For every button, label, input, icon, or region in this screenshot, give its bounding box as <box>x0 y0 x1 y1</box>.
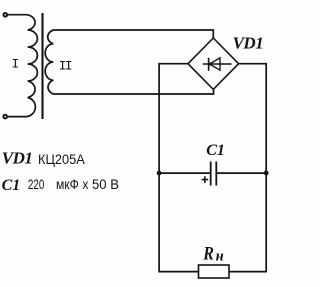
svg-text:II: II <box>59 59 72 74</box>
wire: bridge left output to left vertical, down to bottom, to resistor left <box>159 64 198 272</box>
wire: bridge right output to right vertical, down to bottom, to resistor right <box>229 64 266 272</box>
bridge rectifier VD1 diamond <box>188 38 239 89</box>
svg-text:50 В: 50 В <box>92 176 119 192</box>
svg-text:VD1: VD1 <box>2 149 33 168</box>
wire: capacitor left lead <box>159 172 210 174</box>
diode cathode bar <box>208 58 210 71</box>
capacitor C1 left plate <box>210 162 212 186</box>
transformer core <box>41 13 43 119</box>
svg-text:C1: C1 <box>206 142 225 159</box>
svg-text:220: 220 <box>28 176 45 192</box>
junction dot right <box>264 171 269 176</box>
secondary winding II with top wire to bridge and bottom wire to bridge <box>45 30 213 94</box>
diode apex dot <box>208 63 211 66</box>
junction dot left <box>157 171 162 176</box>
svg-text:I: I <box>12 58 20 72</box>
terminal bottom-left <box>2 114 8 120</box>
primary winding I with lead wires <box>8 15 37 117</box>
plus sign <box>202 176 209 183</box>
svg-text:мкФ: мкФ <box>56 176 79 192</box>
wire: capacitor right lead <box>217 172 266 174</box>
terminal top-left <box>3 12 9 18</box>
svg-text:КЦ205А: КЦ205А <box>38 152 85 167</box>
svg-text:R: R <box>202 242 214 264</box>
diode inside bridge: lead <box>203 63 232 65</box>
svg-text:VD1: VD1 <box>233 33 264 52</box>
svg-text:C1: C1 <box>2 177 21 194</box>
svg-text:н: н <box>216 248 224 264</box>
capacitor C1 right plate <box>215 162 217 186</box>
resistor Rn box <box>199 265 230 278</box>
svg-text:x: x <box>82 176 88 192</box>
diode triangle <box>210 58 220 70</box>
